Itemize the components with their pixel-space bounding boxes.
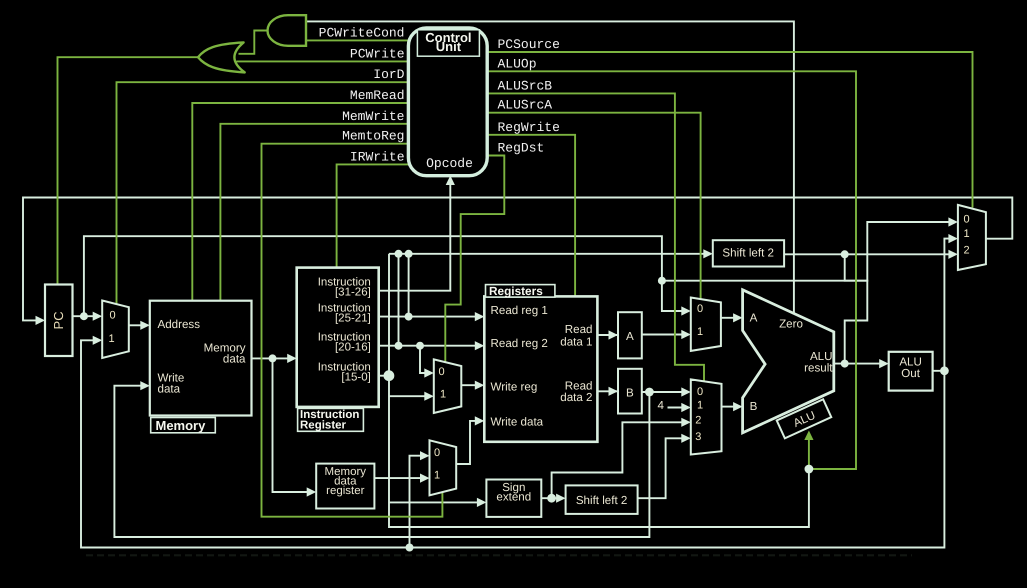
ALU control box (tilted) (777, 399, 832, 438)
wire B register to ALUSrcB mux input 0 (642, 391, 684, 393)
junction PC output (80, 312, 88, 320)
wire ALUOp control down to ALU control (487, 71, 856, 469)
wire PCWriteCond control to AND gate (306, 39, 409, 41)
svg-text:data: data (223, 353, 246, 366)
junction ALU Out output (940, 366, 949, 375)
mux ALUSrcB (0/1/2/3) (691, 379, 722, 454)
svg-text:1: 1 (697, 326, 703, 338)
svg-text:1: 1 (963, 228, 969, 240)
svg-text:0: 0 (963, 213, 969, 225)
svg-text:2: 2 (695, 415, 701, 427)
junction Memory data (269, 354, 277, 362)
wire OR gate output to PC write enable (58, 57, 199, 284)
wire Instruction[20-16] branch up to jump field line (398, 254, 400, 346)
instruction register label box (298, 408, 364, 431)
svg-text:2: 2 (963, 244, 969, 256)
svg-text:B: B (626, 387, 634, 400)
arrow Opcode into Control Unit (446, 176, 455, 186)
arrow Write reg input (475, 381, 485, 390)
arrow PCSource mux input 1 (948, 234, 958, 243)
svg-text:Unit: Unit (436, 39, 462, 54)
AND gate (268, 15, 306, 46)
wire MemtoReg control to MemtoReg mux (262, 144, 443, 517)
svg-text:Write reg: Write reg (491, 381, 538, 394)
svg-text:ALUSrcB: ALUSrcB (498, 78, 553, 93)
arrow ALUSrcA mux input 1 (681, 330, 691, 339)
wire PCWrite control to OR gate input (237, 60, 409, 62)
wire IorD mux output to Memory Address (129, 324, 143, 326)
wire Instruction[15-0] stub to junction (379, 375, 389, 377)
svg-text:Opcode: Opcode (426, 156, 473, 171)
svg-text:Read reg 2: Read reg 2 (491, 337, 548, 350)
arrow RegDst mux input 1 (424, 392, 434, 401)
wire Instruction[15-0] branch to RegDst mux input 1 (389, 395, 427, 397)
wire Instruction[15-0] branch to Sign extend (389, 501, 480, 503)
arrow bottom Shift left 2 input (556, 494, 566, 503)
svg-text:result: result (804, 362, 833, 375)
wire ALUOut branch up to MemtoReg mux input 0 (410, 456, 424, 548)
wire ALU result tie to PCSource line (jog) (845, 254, 868, 363)
wire PC input: PCSource mux output right, up, left along top, down to PC (23, 198, 1012, 321)
arrow ALU input B (733, 402, 743, 411)
wire MDR output to MemtoReg mux input 1 (374, 477, 423, 479)
wire ALU control input arrow stem (808, 440, 810, 470)
wire Sign extend branch to ALUSrcB mux input 2 (552, 422, 684, 498)
svg-text:IorD: IorD (373, 67, 404, 82)
wire Memory data branch down to Memory data register (273, 358, 310, 492)
svg-text:[15-0]: [15-0] (341, 372, 370, 384)
arrow into register B (609, 387, 619, 396)
wire Instruction[20-16] to Read reg 2 (379, 345, 478, 347)
svg-text:Zero: Zero (779, 318, 803, 331)
wire Read data 1 to A register (597, 334, 618, 336)
arrow MDR input (307, 487, 317, 496)
instruction register box (297, 268, 379, 407)
wire Instruction[15-0] vertical: jump line down to funct line (389, 254, 809, 527)
arrow ALU Out input (879, 359, 889, 368)
sign extend box (486, 480, 541, 517)
svg-text:PCWriteCond: PCWriteCond (319, 25, 405, 40)
wire constant 4 to ALUSrcB mux input 1 (668, 407, 685, 409)
svg-text:MemRead: MemRead (350, 88, 405, 103)
arrow ALUSrcB mux input 1 (681, 403, 691, 412)
wire AND gate output to OR gate input (239, 31, 267, 54)
wire ALUSrcB control to ALUSrcB mux (487, 93, 704, 381)
svg-text:ALUSrcA: ALUSrcA (498, 98, 553, 113)
junction ALUOut bottom line (406, 544, 414, 552)
register MDR (memory data register) (316, 464, 374, 509)
svg-text:PCSource: PCSource (498, 37, 560, 52)
junction ALU control input (805, 465, 814, 474)
wire IorD control to IorD mux (117, 82, 409, 304)
junction PC line to PCSource (658, 277, 666, 285)
svg-text:3: 3 (695, 431, 701, 443)
wire ALU result to ALU Out register (834, 363, 882, 365)
arrow ALU input A (733, 313, 743, 322)
arrow PCSource mux input 2 (948, 250, 958, 259)
register B (618, 369, 642, 414)
svg-text:ALUOp: ALUOp (498, 56, 537, 71)
svg-text:0: 0 (438, 366, 444, 378)
registers box (484, 296, 597, 441)
wire PC output to IorD mux input 0 (73, 315, 96, 317)
arrow top Shift left 2 input (703, 249, 713, 258)
junction Instruction[15-0] (384, 370, 395, 381)
svg-text:A: A (626, 330, 634, 343)
svg-text:RegWrite: RegWrite (498, 120, 560, 135)
wire top Shift left 2 output to PCSource mux input 2 (784, 253, 951, 255)
wire ALU Out output to PCSource mux input 1 (933, 239, 951, 371)
wire Instruction[31-26] to Control Unit Opcode (379, 184, 451, 291)
wire ALUSrcA mux output to ALU input A (721, 317, 736, 319)
svg-text:1: 1 (697, 399, 703, 411)
arrow Memory Write data input (140, 381, 150, 390)
arrow Instruction Register input (287, 354, 297, 363)
wire MemRead control to Memory (192, 103, 409, 301)
arrow Memory Address input (140, 321, 150, 330)
arrow PCSource mux input 0 (948, 217, 958, 226)
junction B register output (645, 388, 654, 397)
arrow ALUOp into ALU control (green) (804, 431, 813, 441)
faint dashed margin line at bottom (86, 554, 912, 556)
OR gate (198, 42, 245, 72)
wire Sign extend output to bottom Shift left 2 (541, 497, 559, 499)
wire ALUSrcA control to ALUSrcA mux (487, 113, 701, 300)
register A (618, 312, 642, 358)
svg-text:Out: Out (901, 367, 920, 380)
shift left 2 box (bottom) (566, 485, 638, 514)
wire B register to Memory Write data along bottom (114, 386, 649, 537)
wire ALUOut return: down right side, along bottom, up to IorD mux input 1 (81, 340, 944, 547)
svg-text:[31-26]: [31-26] (335, 287, 371, 299)
svg-text:MemtoReg: MemtoReg (342, 129, 404, 144)
wire ALUSrcB mux output to ALU input B (722, 406, 737, 408)
svg-text:0: 0 (434, 447, 440, 459)
wire PC output branch up and right to ALUSrcA mux input 0 (84, 236, 684, 316)
arrow Read reg 1 input (475, 312, 485, 321)
register ALU Out (889, 352, 933, 391)
svg-text:extend: extend (496, 490, 531, 503)
junction jump field at x408 (405, 250, 413, 258)
svg-text:Registers: Registers (489, 284, 543, 298)
wire jump field line to top Shift left 2 (389, 253, 706, 255)
wire Instruction[20-16] branch down to RegDst mux input 0 (420, 346, 427, 373)
svg-text:data: data (158, 383, 181, 396)
wire A register to ALUSrcA mux input 1 (642, 334, 684, 336)
wire Memory data output to Instruction Register (252, 357, 291, 359)
control unit title box (417, 30, 479, 56)
ALU body (743, 290, 834, 433)
junction Instruction[25-21] (405, 313, 413, 321)
svg-text:Address: Address (158, 318, 201, 331)
wire Instruction[25-21] branch up to jump field line (408, 254, 410, 317)
svg-text:IRWrite: IRWrite (350, 149, 405, 164)
svg-text:MemWrite: MemWrite (342, 109, 404, 124)
mux MemtoReg (0/1) (430, 440, 457, 495)
mux ALUSrcA (0/1) (691, 298, 721, 351)
mux RegDst (0/1) (434, 359, 462, 413)
svg-text:[20-16]: [20-16] (335, 342, 371, 354)
arrow Write data input (475, 416, 485, 425)
wire RegWrite control to Registers (487, 135, 575, 297)
junction jump field at x398 (395, 250, 403, 258)
wire MemtoReg mux output to Write data (456, 421, 477, 464)
wire PC branch to PCSource mux input 0 (662, 222, 951, 281)
wire IRWrite control to Instruction Register (337, 164, 409, 267)
arrow ALUSrcB mux input 2 (681, 418, 691, 427)
arrow MemtoReg mux input 0 (420, 451, 430, 460)
svg-text:0: 0 (109, 309, 115, 321)
svg-text:1: 1 (108, 333, 114, 345)
wire RegDst control to RegDst mux (445, 156, 504, 362)
svg-text:data 2: data 2 (560, 391, 592, 404)
svg-text:PCWrite: PCWrite (350, 46, 405, 61)
junction Instruction[20-16] right (416, 342, 424, 350)
arrow Read reg 2 input (475, 341, 485, 350)
mux PCSource (0/1/2) (958, 205, 986, 270)
wire Zero: ALU zero flag up and left to AND gate top input (306, 21, 794, 313)
wire RegDst mux output to Write reg (461, 384, 477, 386)
svg-text:Memory: Memory (156, 418, 207, 433)
memory unit box (150, 301, 252, 416)
register PC (45, 285, 73, 357)
svg-text:Read: Read (565, 323, 593, 336)
svg-text:1: 1 (434, 470, 440, 482)
arrow ALUSrcB mux input 3 (681, 434, 691, 443)
arrow ALUSrcA mux input 0 (681, 306, 691, 315)
wire MemWrite control to Memory (220, 124, 409, 301)
svg-text:Register: Register (300, 420, 347, 432)
svg-text:PC: PC (51, 311, 66, 329)
svg-text:register: register (326, 485, 365, 497)
svg-text:0: 0 (697, 303, 703, 315)
control unit rounded box (408, 28, 487, 176)
svg-text:[25-21]: [25-21] (335, 313, 371, 325)
arrow RegDst mux input 0 (424, 368, 434, 377)
svg-text:Shift left 2: Shift left 2 (722, 247, 774, 260)
arrow MemtoReg mux input 1 (420, 474, 430, 483)
memory label box (151, 418, 216, 433)
wire PCSource control to PCSource mux (487, 52, 973, 208)
svg-text:1: 1 (440, 389, 446, 401)
junction shift output line (841, 250, 849, 258)
svg-text:Read reg 1: Read reg 1 (491, 304, 548, 317)
junction Instruction[20-16] left (395, 342, 403, 350)
junction Sign extend output (547, 494, 556, 503)
svg-text:0: 0 (697, 386, 703, 398)
arrow Sign extend input (477, 498, 487, 507)
arrow into register A (609, 330, 619, 339)
mux IorD (0/1) (102, 301, 129, 359)
arrow into PC (36, 316, 46, 325)
svg-text:data 1: data 1 (560, 336, 592, 349)
wire Instruction[25-21] to Read reg 1 (379, 316, 478, 318)
junction ALU result (841, 360, 849, 368)
svg-text:RegDst: RegDst (498, 141, 545, 156)
svg-text:Shift left 2: Shift left 2 (576, 494, 628, 507)
shift left 2 box (top) (713, 240, 784, 266)
wire bottom Shift left 2 output to ALUSrcB mux input 3 (638, 438, 684, 498)
arrow IorD mux input 0 (93, 312, 103, 321)
wire Read data 2 to B register (597, 390, 618, 392)
svg-text:A: A (750, 312, 758, 325)
svg-text:B: B (750, 400, 758, 413)
arrow ALUSrcB mux input 0 (681, 387, 691, 396)
svg-text:Write data: Write data (491, 416, 544, 429)
arrow IorD mux input 1 (93, 336, 103, 345)
registers label box (486, 285, 555, 298)
svg-text:4: 4 (657, 399, 664, 412)
